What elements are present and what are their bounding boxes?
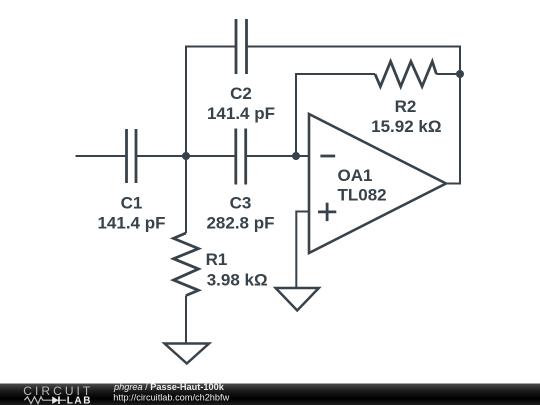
op-amp OA1 — [309, 114, 446, 253]
wire top rail right — [247, 47, 461, 184]
capacitor C3 — [236, 129, 246, 185]
svg-text:141.4 pF: 141.4 pF — [97, 214, 165, 233]
value C2 141.4 pF — [207, 104, 275, 123]
resistor R2 — [375, 62, 436, 87]
svg-text:282.8 pF: 282.8 pF — [206, 214, 274, 233]
label C3 — [230, 194, 252, 213]
svg-text:15.92 kΩ: 15.92 kΩ — [371, 117, 441, 136]
svg-text:phgrea / Passe-Haut-100k: phgrea / Passe-Haut-100k — [113, 382, 225, 392]
capacitor C1 — [127, 129, 137, 183]
svg-text:R1: R1 — [206, 250, 228, 269]
label R2 — [395, 97, 417, 116]
svg-text:OA1: OA1 — [338, 166, 373, 185]
resistor R1 — [174, 233, 199, 296]
node A junction — [182, 152, 190, 160]
svg-text:http://circuitlab.com/ch2hbfw: http://circuitlab.com/ch2hbfw — [113, 393, 229, 403]
value C3 282.8 pF — [206, 214, 274, 233]
wire R2 to node C — [436, 73, 460, 75]
label C1 — [121, 194, 143, 213]
wire node A down to R1 — [185, 156, 187, 233]
CircuitLab logo — [23, 384, 93, 405]
svg-text:3.98 kΩ: 3.98 kΩ — [207, 271, 268, 290]
node C junction — [456, 70, 464, 78]
wire C1 to node A — [136, 155, 186, 157]
wire R1 to ground — [185, 296, 187, 344]
svg-text:C3: C3 — [230, 194, 252, 213]
value R2 15.92 kOhm — [371, 117, 441, 136]
svg-text:TL082: TL082 — [338, 186, 387, 205]
svg-text:141.4 pF: 141.4 pF — [207, 104, 275, 123]
label OA1 — [338, 166, 373, 185]
capacitor C2 — [236, 19, 247, 74]
wire node A to C3 — [186, 155, 236, 157]
svg-text:LAB: LAB — [67, 395, 92, 405]
wire input left — [76, 155, 127, 157]
svg-text:C2: C2 — [230, 84, 252, 103]
wire non-inverting input to ground — [296, 212, 310, 289]
node B junction — [292, 152, 300, 160]
wire C3 to node B and op-amp — [246, 155, 310, 157]
svg-text:R2: R2 — [395, 97, 417, 116]
wire op-amp output — [446, 183, 461, 185]
value C1 141.4 pF — [97, 214, 165, 233]
svg-text:C1: C1 — [121, 194, 143, 213]
label C2 — [230, 84, 252, 103]
footer url text — [113, 393, 229, 403]
footer title text — [113, 382, 225, 392]
value R1 3.98 kOhm — [207, 271, 268, 290]
wire top rail left — [185, 46, 236, 48]
wire node A up to top rail — [185, 46, 187, 157]
value TL082 — [338, 186, 387, 205]
label R1 — [206, 250, 228, 269]
footer bar — [0, 384, 540, 405]
ground GND1 — [165, 344, 210, 364]
wire node B up to R2 — [296, 74, 375, 156]
ground GND2 — [276, 288, 319, 311]
